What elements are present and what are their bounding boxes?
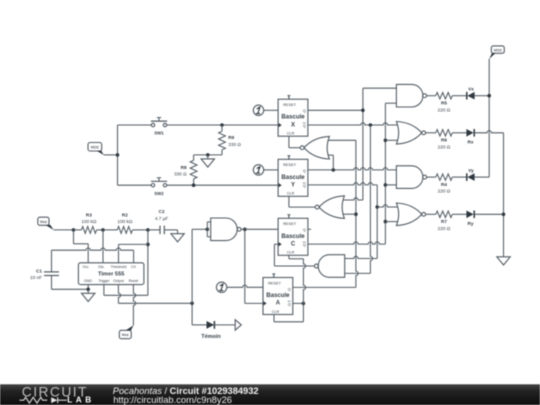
- wire Y.Qbar to U4 input A: [377, 205, 401, 207]
- node Vx VCC junction: [487, 94, 491, 98]
- wire Vcc to R3: [54, 229, 74, 231]
- node U5 output junction: [243, 228, 247, 232]
- node 555 output junction: [190, 302, 194, 306]
- svg-text:R4: R4: [441, 182, 447, 187]
- svg-text:220 Ω: 220 Ω: [438, 144, 451, 149]
- svg-text:GND: GND: [84, 279, 92, 283]
- wire Y.Qbar output: [308, 183, 377, 185]
- wire G1 input A: [326, 139, 356, 141]
- svg-text:Bascule: Bascule: [281, 114, 305, 121]
- wire C.Qbar to U2 input B: [385, 139, 401, 141]
- node Ry rail junction: [502, 213, 506, 217]
- svg-text:Reset: Reset: [129, 279, 138, 283]
- flip-flop Bascule C: [278, 215, 308, 256]
- node 1 flag (A set): [216, 282, 226, 292]
- svg-text:CLR: CLR: [287, 132, 295, 136]
- svg-text:100 kΩ: 100 kΩ: [81, 219, 96, 224]
- svg-text:Q: Q: [303, 168, 306, 173]
- wire 555 Output pin: [118, 285, 192, 304]
- wire C2 to ground: [164, 229, 177, 231]
- wire Y.Qbar to U6 input A: [345, 256, 378, 258]
- resistor R3: [74, 212, 104, 233]
- svg-text:220 Ω: 220 Ω: [438, 107, 451, 112]
- wire 1-flag to X: [264, 109, 278, 111]
- node GND pin junction: [86, 288, 90, 292]
- svg-text:Ry: Ry: [468, 221, 474, 226]
- wire X.Q bus vertical: [362, 88, 364, 200]
- wire Y.Qbar bus vertical: [376, 185, 378, 259]
- ground (555 GND): [82, 289, 95, 301]
- svg-text:Q: Q: [288, 301, 291, 306]
- flip-flop Bascule Y: [278, 156, 308, 197]
- wire R4 to diode: [452, 176, 467, 178]
- resistor R6: [436, 130, 453, 150]
- svg-text:Vcc: Vcc: [40, 219, 48, 224]
- resistor R2: [103, 212, 148, 233]
- wire Ry to right rail: [474, 213, 503, 215]
- node U5 input junction: [206, 228, 210, 232]
- svg-text:220 Ω: 220 Ω: [438, 226, 451, 231]
- nor-gate G1 (drives X CLR): [300, 136, 329, 159]
- wire output down to Temoin: [192, 303, 207, 325]
- wire U5 output to C: [241, 228, 278, 230]
- power flag Vcc (near R3): [38, 217, 54, 230]
- svg-text:Dis.: Dis.: [98, 265, 104, 269]
- svg-text:Threshold: Threshold: [111, 265, 127, 269]
- ground (between R8 and R9): [201, 155, 214, 167]
- flip-flop Bascule A: [263, 274, 293, 315]
- svg-text:Q: Q: [303, 108, 306, 113]
- wire 555 Trigger pin: [104, 285, 148, 296]
- nand-gate U3: [396, 166, 426, 189]
- wire Y.Q output to U3: [308, 168, 397, 170]
- svg-text:R9: R9: [228, 135, 234, 140]
- power flag VCC (left): [88, 143, 104, 156]
- svg-text:Vy: Vy: [468, 168, 474, 173]
- nand-gate U6 (drives C clock): [314, 255, 344, 278]
- wire output up to U5: [191, 229, 193, 303]
- svg-text:VCC: VCC: [91, 144, 100, 149]
- wire row1 to SW1: [118, 124, 152, 126]
- wire A clock: [245, 302, 263, 304]
- wire G2 input B: [341, 213, 356, 215]
- switch SW1: [151, 118, 167, 136]
- node R3 left junction: [72, 228, 76, 232]
- svg-text:CV: CV: [131, 265, 137, 269]
- node 1 flag (X set): [253, 105, 263, 115]
- node R9 top junction: [220, 123, 224, 127]
- flip-flop Bascule X: [278, 96, 308, 137]
- nor-gate G2 (drives Y CLR): [315, 196, 344, 219]
- node A.Qbar junction: [302, 302, 306, 306]
- wire A.Q bus vertical: [356, 140, 358, 287]
- wire CLR bus vertical: [303, 259, 305, 322]
- power flag VCC (top right): [489, 46, 504, 59]
- svg-text:Timer 555: Timer 555: [98, 271, 124, 277]
- wire C.Qbar to U4 input B: [385, 221, 401, 223]
- wire VCC rail vertical: [488, 59, 490, 177]
- wire X.Qbar output to U2: [308, 123, 401, 125]
- node X.Qbar junction: [369, 123, 373, 127]
- svg-text:http://circuitlab.com/c9n8y26: http://circuitlab.com/c9n8y26: [113, 394, 232, 405]
- svg-text:CLR: CLR: [287, 251, 295, 255]
- wire X.Q to U1 input: [363, 87, 397, 89]
- wire C.Qbar to U3 input B: [385, 184, 396, 186]
- svg-text:330 Ω: 330 Ω: [228, 142, 241, 147]
- node R8 bottom junction: [192, 183, 196, 187]
- wire SW1 to Bascule X clock: [167, 124, 278, 126]
- svg-text:R5: R5: [441, 101, 447, 106]
- node VCC tap junction: [116, 153, 120, 157]
- node threshold branch junction: [146, 243, 150, 247]
- svg-text:C1: C1: [36, 268, 42, 273]
- svg-text:Bascule: Bascule: [281, 174, 305, 181]
- wire R6 row out: [426, 132, 436, 134]
- svg-text:A: A: [276, 301, 281, 307]
- wire C.CLR stub: [289, 255, 304, 258]
- node R3-R2 junction: [101, 228, 105, 232]
- svg-text:Q: Q: [303, 183, 306, 188]
- wire R7 row out: [426, 213, 436, 215]
- svg-text:LAB: LAB: [67, 396, 94, 405]
- wire left rail vertical: [117, 125, 119, 185]
- wire C.Q stub: [308, 228, 311, 230]
- power flag Vcc (reset): [119, 325, 133, 338]
- svg-text:C: C: [291, 242, 296, 248]
- svg-text:Témoin: Témoin: [201, 334, 221, 340]
- node Y.Qbar junction (U4 input): [375, 205, 379, 209]
- svg-text:SW1: SW1: [154, 131, 164, 136]
- svg-text:RESET: RESET: [283, 162, 297, 167]
- nand-gate U5: [211, 218, 241, 241]
- resistor R8: [174, 155, 197, 185]
- wire Vy to VCC rail: [474, 176, 489, 178]
- svg-text:Vcc: Vcc: [122, 332, 130, 337]
- svg-text:RESET: RESET: [268, 280, 282, 285]
- svg-text:4.7 µF: 4.7 µF: [155, 216, 169, 221]
- svg-text:RESET: RESET: [283, 221, 297, 226]
- wire G2 input A: [341, 198, 363, 200]
- ground (right rail): [497, 257, 510, 265]
- node Temoin output arrow: [235, 320, 241, 331]
- wire G1 input B: [326, 155, 333, 170]
- wire R5 to diode: [452, 95, 467, 97]
- svg-text:RESET: RESET: [283, 102, 297, 107]
- wire X.Q output: [308, 109, 363, 111]
- svg-text:Rx: Rx: [468, 140, 474, 145]
- svg-text:VCC: VCC: [494, 47, 503, 52]
- wire A.CLR stub: [274, 315, 303, 322]
- wire R4 row out: [427, 176, 436, 178]
- svg-text:Vx: Vx: [468, 87, 474, 92]
- wire Temoin to flag: [214, 324, 235, 326]
- wire C.Qbar output: [308, 242, 386, 244]
- nor-gate U2: [396, 122, 425, 145]
- svg-text:SW2: SW2: [154, 191, 164, 196]
- wire Vx to VCC rail: [474, 95, 489, 97]
- wire 1-flag to Y: [264, 169, 278, 171]
- node Y.Q junction: [332, 168, 336, 172]
- wire X.Qbar bus vertical: [370, 125, 372, 273]
- node A.Q to G2 junction: [354, 212, 358, 216]
- wire Y.CLR to G2: [289, 196, 315, 207]
- wire C.Qbar to U1 input B: [385, 102, 396, 104]
- svg-text:Q: Q: [303, 242, 306, 247]
- svg-text:R7: R7: [441, 219, 447, 224]
- wire R5 row out: [427, 95, 436, 97]
- svg-text:220 Ω: 220 Ω: [438, 189, 451, 194]
- wire Rx to right rail: [474, 131, 503, 133]
- node C2 left junction: [146, 228, 150, 232]
- wire R3 to 555 Vcc pin: [74, 230, 89, 263]
- wire C1 to 555 CV pin: [52, 248, 134, 263]
- nand-gate U1: [396, 84, 426, 107]
- capacitor C1: [30, 250, 59, 289]
- diode Ry (LED): [466, 211, 474, 227]
- wire VCC flag to left rail: [104, 154, 118, 156]
- wire C2 net vertical: [147, 230, 149, 295]
- wire U5 output bus vertical: [244, 229, 246, 303]
- node X.Q junction: [361, 109, 365, 113]
- svg-text:CLR: CLR: [272, 310, 280, 314]
- diode Vy (LED): [467, 168, 475, 181]
- wire A.Qbar output: [293, 302, 304, 304]
- wire C clock from U6: [274, 244, 314, 266]
- wire X.CLR to G1: [289, 136, 300, 148]
- svg-text:Bascule: Bascule: [281, 233, 305, 240]
- wire 555 out to U5: [192, 228, 207, 230]
- wire 555 Reset pin: [133, 285, 135, 326]
- svg-text:Vcc: Vcc: [83, 265, 89, 269]
- wire C1 bottom to GND pin: [52, 288, 89, 290]
- diode Vx (LED): [467, 87, 475, 100]
- resistor R7: [436, 211, 453, 231]
- footer bar with CircuitLab logo and credits: [0, 384, 540, 405]
- wire C.Qbar bus vertical: [384, 103, 386, 244]
- svg-text:Bascule: Bascule: [266, 292, 290, 299]
- ground (C2): [171, 230, 184, 242]
- wire to 555 Threshold pin: [119, 244, 148, 262]
- wire right ground rail: [503, 133, 505, 257]
- svg-text:Q: Q: [303, 227, 306, 232]
- svg-text:C2: C2: [159, 209, 165, 214]
- svg-text:R2: R2: [122, 212, 128, 217]
- wire 555 GND pin: [87, 285, 89, 290]
- node C.Qbar to U4 junction: [384, 220, 388, 224]
- diode Temoin: [201, 321, 221, 340]
- svg-text:Q: Q: [303, 123, 306, 128]
- svg-text:CLR: CLR: [287, 192, 295, 196]
- node C.Qbar to U2 junction: [384, 139, 388, 143]
- svg-text:Q: Q: [288, 286, 291, 291]
- node C.Qbar to U3 junction: [384, 183, 388, 187]
- resistor R4: [436, 174, 453, 194]
- resistor R9: [219, 125, 242, 155]
- wire A.Q output: [293, 286, 356, 288]
- svg-text:330 Ω: 330 Ω: [174, 172, 187, 177]
- node 1 flag (Y set): [253, 165, 263, 175]
- wire 1-flag to A: [227, 285, 263, 287]
- wire R7 to diode: [452, 213, 466, 215]
- wire row2 to SW2: [118, 184, 152, 186]
- svg-text:R8: R8: [181, 165, 187, 170]
- wire SW2 to Bascule Y clock: [167, 184, 278, 186]
- wire R8 top to R9 bottom: [194, 154, 222, 156]
- wire R2 to 555 Dis pin: [102, 230, 104, 263]
- wire R6 to diode: [452, 132, 466, 134]
- switch SW2: [151, 178, 167, 196]
- node ground tap junction: [206, 153, 210, 157]
- svg-text:Output: Output: [113, 279, 124, 283]
- wire U5 input tie bar: [207, 222, 210, 237]
- capacitor C2: [148, 209, 169, 234]
- wire X.Qbar to U6 input B: [345, 272, 371, 274]
- IC IC1 Timer 555: [78, 263, 143, 285]
- svg-text:Trigger: Trigger: [98, 279, 110, 283]
- svg-text:X: X: [291, 122, 295, 128]
- svg-text:R6: R6: [441, 138, 447, 143]
- nor-gate U4: [396, 203, 425, 226]
- svg-text:10 nF: 10 nF: [30, 275, 42, 280]
- svg-text:R3: R3: [86, 212, 92, 217]
- svg-text:Y: Y: [291, 183, 295, 189]
- svg-text:100 kΩ: 100 kΩ: [117, 219, 132, 224]
- diode Rx (LED): [466, 129, 474, 145]
- resistor R5: [436, 93, 453, 113]
